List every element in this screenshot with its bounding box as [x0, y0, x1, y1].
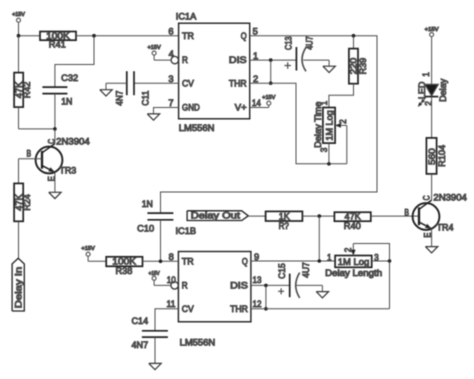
wire junction down to C32: [55, 36, 94, 87]
svg-text:4: 4: [169, 49, 174, 59]
transistor TR4 2N3904: [404, 193, 467, 247]
svg-text:R: R: [182, 281, 188, 291]
wire C10 to IC1B TR pin 8: [160, 220, 162, 261]
svg-text:C: C: [47, 138, 57, 144]
op IC1A LM556N (timer A): [171, 11, 250, 132]
wire Delay Out tag to R?: [248, 215, 265, 217]
wire R38 to IC1B TR pin 8 with C10 junction: [143, 260, 179, 264]
pin 1 label (IC1A DIS): [253, 51, 258, 61]
wire +15V rail to R41 with junction to R42: [17, 34, 40, 38]
pin 3 label (Delay Time): [319, 148, 329, 153]
ground at C15: [316, 285, 328, 298]
svg-text:Q: Q: [241, 31, 247, 41]
svg-text:13: 13: [253, 275, 262, 285]
wire IC1B Q pin 9 to Delay Length pot pin 1: [251, 259, 335, 263]
svg-text:C15: C15: [277, 263, 287, 279]
ground at TR4 emitter: [425, 247, 437, 253]
svg-text:1N: 1N: [61, 97, 72, 107]
svg-text:560: 560: [427, 148, 437, 165]
svg-text:3: 3: [374, 252, 379, 262]
wire R39 to Delay Time pot pin 1: [329, 84, 354, 108]
svg-text:1N: 1N: [142, 199, 153, 209]
svg-text:R40: R40: [344, 221, 361, 231]
pin 2 label (IC1A THR): [253, 74, 258, 84]
node Delay In (input tag): [12, 258, 24, 311]
svg-text:R?: R?: [279, 221, 289, 231]
power +15V at IC1A reset pin: [148, 45, 172, 60]
svg-text:THR: THR: [230, 304, 248, 314]
wire IC1A THR pin 2 down to Delay Time pot bottom: [250, 83, 347, 165]
wire IC1A Q output (pin 5) across top and down right side to C10: [161, 34, 378, 213]
resistor R39 220: [349, 36, 368, 84]
svg-text:IC1B: IC1B: [176, 226, 197, 236]
svg-text:LED: LED: [417, 82, 427, 100]
wire C13 to ground: [303, 59, 329, 61]
wire IC1B THR pin 12 to pot right side: [251, 308, 390, 310]
svg-text:TR4: TR4: [437, 223, 454, 233]
pin 13 label (IC1B DIS): [253, 275, 262, 285]
pin 1 label (Delay Length): [327, 252, 332, 262]
svg-text:2: 2: [338, 119, 348, 124]
wire IC1A GND pin to ground: [154, 108, 179, 114]
ground at IC1A GND: [147, 114, 159, 120]
pin 14 label (IC1A V+): [252, 98, 261, 108]
svg-text:1: 1: [319, 101, 329, 106]
resistor R24 47K: [14, 183, 32, 221]
op IC1B LM556N (timer B): [171, 226, 251, 347]
svg-text:C32: C32: [61, 73, 78, 83]
pin 3 label (Delay Length): [374, 252, 379, 262]
svg-text:100K: 100K: [112, 256, 136, 266]
wire R41 to IC1A TR pin 6: [76, 34, 179, 38]
svg-text:2N3904: 2N3904: [433, 193, 467, 203]
potentiometer Delay Time 1M Log: [313, 101, 347, 163]
capacitor C10 1N: [137, 199, 173, 234]
svg-text:Delay Out: Delay Out: [191, 211, 241, 221]
svg-text:R42: R42: [22, 82, 32, 99]
svg-text:Delay In: Delay In: [14, 267, 24, 309]
capacitor C11 4N7: [114, 71, 150, 106]
resistor R? 1K: [266, 211, 303, 231]
svg-text:4U7: 4U7: [305, 36, 315, 50]
ground at TR3 emitter: [49, 192, 61, 198]
svg-text:E: E: [422, 232, 432, 237]
wire TR3 base to R24: [19, 159, 43, 184]
svg-text:R39: R39: [358, 58, 368, 75]
svg-text:TR: TR: [182, 31, 194, 41]
svg-text:C13: C13: [284, 36, 294, 50]
svg-text:5: 5: [253, 27, 258, 37]
capacitor C13 4U7 (polarized): [284, 36, 315, 71]
svg-text:+15V: +15V: [425, 27, 439, 33]
resistor R104 560: [426, 138, 447, 174]
svg-text:C14: C14: [132, 316, 149, 326]
pin 4 label (IC1A R): [169, 49, 174, 59]
svg-text:TR: TR: [182, 256, 194, 266]
svg-text:1: 1: [253, 51, 258, 61]
wire C14 to ground: [154, 337, 156, 363]
LED Delay indicator: [417, 78, 448, 106]
pin 7 label (IC1A GND): [168, 98, 173, 108]
wire IC1A CV to C11: [134, 82, 179, 84]
svg-text:+15V: +15V: [148, 45, 162, 51]
svg-text:R41: R41: [49, 40, 66, 50]
capacitor C32 1N: [42, 73, 78, 107]
svg-text:C11: C11: [141, 90, 151, 105]
svg-text:LM556N: LM556N: [179, 123, 215, 133]
pin 11 label (IC1B CV): [167, 299, 176, 309]
svg-text:+15V: +15V: [262, 95, 276, 101]
ground at C11: [100, 83, 112, 96]
svg-text:DIS: DIS: [230, 281, 248, 291]
svg-text:1M Log: 1M Log: [338, 257, 370, 267]
svg-text:1K: 1K: [279, 211, 290, 221]
wire IC1B DIS pin 13 to C15: [251, 284, 290, 288]
svg-text:C10: C10: [137, 224, 154, 234]
svg-text:+15V: +15V: [12, 12, 25, 18]
resistor R40 47K: [334, 212, 370, 231]
svg-text:2N3904: 2N3904: [56, 136, 90, 146]
svg-text:6: 6: [168, 27, 173, 37]
svg-text:8: 8: [169, 252, 174, 262]
svg-text:R: R: [182, 55, 188, 65]
resistor R41 100K: [40, 31, 76, 50]
wire IC1B CV pin 11 to C14: [155, 309, 178, 331]
ground at C13: [323, 60, 335, 72]
ground at C14: [149, 363, 161, 369]
svg-text:Delay Time: Delay Time: [313, 101, 323, 147]
pin 1 label (LED anode): [421, 72, 431, 77]
svg-text:Delay Length: Delay Length: [325, 268, 382, 278]
svg-text:B: B: [404, 207, 409, 217]
wire R24 to Delay In tag: [18, 221, 20, 258]
pin 2 label (Delay Time): [338, 119, 348, 124]
svg-text:2: 2: [343, 248, 353, 253]
svg-text:Q: Q: [242, 256, 248, 266]
wire R42 to collector junction: [19, 127, 57, 131]
svg-text:14: 14: [252, 98, 261, 108]
wire R40 to TR4 base: [371, 215, 419, 217]
svg-text:THR: THR: [229, 78, 247, 88]
wire R? to R40 with junction down to IC1B Q: [302, 214, 334, 261]
wire C32 to TR3 collector node: [54, 94, 56, 129]
pin 3 label (IC1A CV): [168, 74, 173, 84]
svg-text:10: 10: [167, 275, 176, 285]
pin 1 label (Delay Time): [319, 101, 329, 106]
svg-text:R38: R38: [116, 266, 133, 276]
svg-text:V+: V+: [235, 103, 247, 113]
svg-text:CV: CV: [182, 304, 194, 314]
svg-text:3: 3: [319, 148, 329, 153]
svg-text:B: B: [27, 149, 32, 159]
wire C11 to ground: [106, 82, 127, 84]
svg-text:1M Log: 1M Log: [324, 110, 334, 140]
svg-text:Delay: Delay: [438, 78, 448, 102]
wire LED to R104: [431, 97, 433, 138]
pin 8 label (IC1B TR): [169, 252, 174, 262]
svg-text:IC1A: IC1A: [176, 11, 197, 21]
power +15V (top-right): [425, 27, 439, 85]
pin 12 label (IC1B THR): [253, 299, 262, 309]
pin 2 label (Delay Length): [343, 248, 353, 253]
svg-text:11: 11: [167, 299, 176, 309]
capacitor C14 4N7: [132, 316, 168, 350]
svg-text:1: 1: [421, 72, 431, 77]
wire pot wiper junction down to THR net: [389, 261, 391, 309]
svg-text:4U7: 4U7: [301, 262, 311, 278]
svg-text:1: 1: [327, 252, 332, 262]
capacitor C15 4U7 (polarized): [277, 262, 311, 298]
svg-text:C: C: [422, 195, 432, 201]
svg-text:4N7: 4N7: [114, 90, 124, 105]
pin 5 label (IC1A Q): [253, 27, 258, 37]
node Delay Out (output tag): [187, 211, 248, 221]
pin 9 label (IC1B Q): [254, 252, 259, 262]
svg-text:TR3: TR3: [59, 165, 76, 175]
power +15V at R38: [81, 246, 106, 261]
svg-text:CV: CV: [182, 78, 194, 88]
pin 6 label (IC1A TR): [168, 27, 173, 37]
potentiometer Delay Length 1M Log: [325, 244, 391, 279]
resistor R42 47K: [14, 36, 32, 129]
power +15V at IC1B reset pin: [149, 271, 171, 285]
resistor R38 100K: [106, 256, 142, 276]
svg-text:R24: R24: [22, 194, 32, 211]
svg-text:12: 12: [253, 299, 262, 309]
wire C15 to ground: [297, 284, 323, 286]
transistor TR3 2N3904: [27, 129, 90, 192]
pin 10 label (IC1B R): [167, 275, 176, 285]
svg-text:4N7: 4N7: [132, 340, 149, 350]
pin 2 label (LED cathode): [423, 101, 433, 106]
wire link IC1B DIS to THR: [264, 285, 268, 310]
svg-text:+15V: +15V: [81, 246, 95, 252]
wire R104 to TR4 collector: [431, 174, 433, 200]
wire link IC1A DIS to THR: [269, 60, 273, 85]
svg-text:2: 2: [253, 74, 258, 84]
svg-text:3: 3: [168, 74, 173, 84]
svg-text:LM556N: LM556N: [180, 337, 216, 347]
svg-text:GND: GND: [182, 103, 200, 113]
svg-text:7: 7: [168, 98, 173, 108]
svg-text:R104: R104: [437, 145, 447, 167]
power +15V supply (top-left): [12, 12, 25, 36]
wire IC1A DIS pin 1 to C13: [250, 58, 297, 62]
svg-text:E: E: [47, 176, 57, 181]
svg-text:DIS: DIS: [229, 55, 247, 65]
power +15V at IC1A V+ pin 14: [250, 95, 276, 108]
